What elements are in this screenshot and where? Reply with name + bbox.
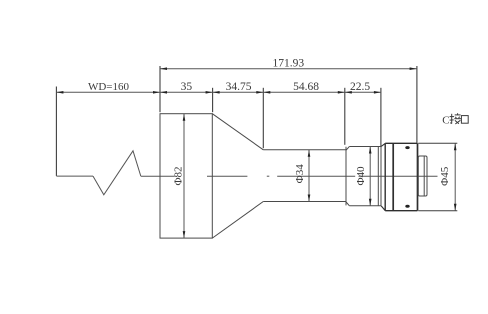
phi40 dimension line (369, 147, 371, 206)
C-mount thread inner line (423, 156, 425, 195)
set screw top (405, 146, 409, 149)
phi40 bottom edge (349, 205, 381, 207)
svg-text:Φ82: Φ82 (172, 166, 184, 185)
svg-text:C: C (442, 114, 449, 126)
rear block (phi45 mount) left edge (384, 143, 386, 210)
phi45 top extension line (418, 142, 457, 144)
svg-text:54.68: 54.68 (293, 81, 319, 93)
optical axis dot (267, 175, 270, 177)
phi82 dimension line (183, 114, 185, 238)
lens front body (phi82 section) (160, 114, 212, 238)
optical axis dash 1 (207, 175, 247, 177)
C-mount thread outer rectangle (418, 156, 427, 196)
object plane vertical line (55, 87, 57, 176)
CJK glyph kou (mouth/port) (461, 116, 468, 124)
phi40 bottom chamfer left (346, 202, 349, 206)
svg-text:22.5: 22.5 (350, 81, 370, 93)
phi40 end face (380, 147, 382, 206)
phi34 tube bottom edge (263, 201, 346, 203)
rear block bottom edge (385, 210, 417, 212)
arrow left WD (56, 91, 63, 94)
svg-text:Φ40: Φ40 (355, 166, 367, 186)
svg-text:35: 35 (181, 81, 193, 93)
break zigzag (93, 151, 141, 195)
arrows at x263.3 (256, 91, 263, 94)
phi40 section front face (345, 147, 347, 206)
arrows at x344.8 (338, 91, 345, 94)
phi45 dimension line (454, 143, 456, 210)
extension line x416.9 (416, 66, 418, 143)
chamfer to rear block bottom (381, 206, 385, 211)
extension line x344.8 (344, 88, 346, 145)
axis segment after zigzag (141, 175, 175, 177)
phi40 top edge (349, 146, 381, 148)
dimension line 171.93 (160, 68, 417, 70)
cone bottom edge (212, 202, 263, 239)
svg-text:34.75: 34.75 (226, 81, 252, 93)
CJK glyph jie (interface) (450, 113, 461, 124)
rear block inner dark line (392, 143, 394, 210)
dimension line WD=160 and chain 35/34.75/54.68/22.5 (56, 91, 381, 93)
arrows at x212.6 (206, 91, 213, 94)
extension line x263.3 (262, 88, 264, 148)
arrows at x160 (153, 91, 160, 94)
phi45 bottom extension line (418, 210, 457, 212)
arrow right 22.5 (374, 91, 381, 94)
cone top edge (212, 114, 263, 150)
phi34 tube top edge (263, 149, 346, 151)
rear block right edge (417, 143, 419, 210)
extension line x212.6 (212, 88, 214, 112)
svg-text:171.93: 171.93 (272, 58, 304, 70)
set screw bottom (405, 205, 409, 208)
extension line x160 (front face / WD / 171.93 / 35) (159, 66, 161, 112)
phi40 top chamfer left (346, 147, 349, 151)
svg-text:Φ45: Φ45 (439, 166, 451, 186)
svg-text:WD=160: WD=160 (88, 81, 130, 93)
optical axis dash 3 (359, 175, 438, 177)
chamfer to rear block top (381, 143, 385, 146)
phi40 groove line (377, 147, 379, 206)
object plane horizontal segment (56, 175, 93, 177)
optical axis dash 2 (277, 175, 355, 177)
rear block top edge (385, 142, 417, 144)
svg-text:Φ34: Φ34 (294, 164, 306, 184)
extension line x380.9 (380, 88, 382, 146)
phi34 dimension line (308, 150, 310, 202)
